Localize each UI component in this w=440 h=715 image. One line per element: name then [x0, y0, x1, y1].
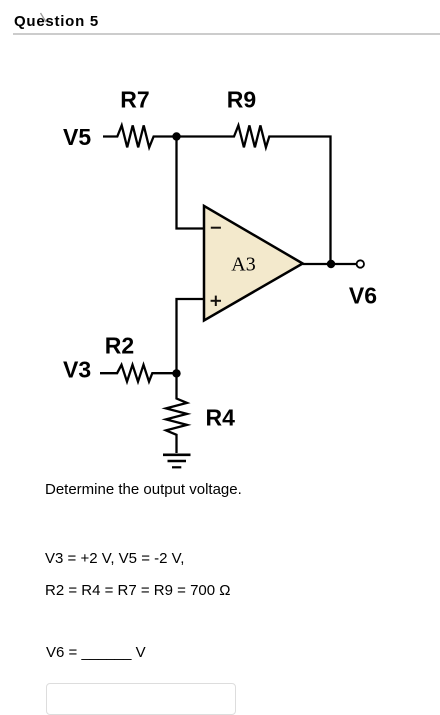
svg-text:R2: R2 — [105, 333, 134, 359]
svg-text:R4: R4 — [206, 405, 236, 431]
svg-text:V5: V5 — [63, 124, 91, 150]
svg-text:R9: R9 — [227, 86, 256, 112]
svg-text:V6: V6 — [349, 283, 377, 309]
svg-text:A3: A3 — [231, 254, 255, 276]
svg-text:V3: V3 — [63, 357, 91, 383]
svg-text:R7: R7 — [120, 87, 149, 113]
